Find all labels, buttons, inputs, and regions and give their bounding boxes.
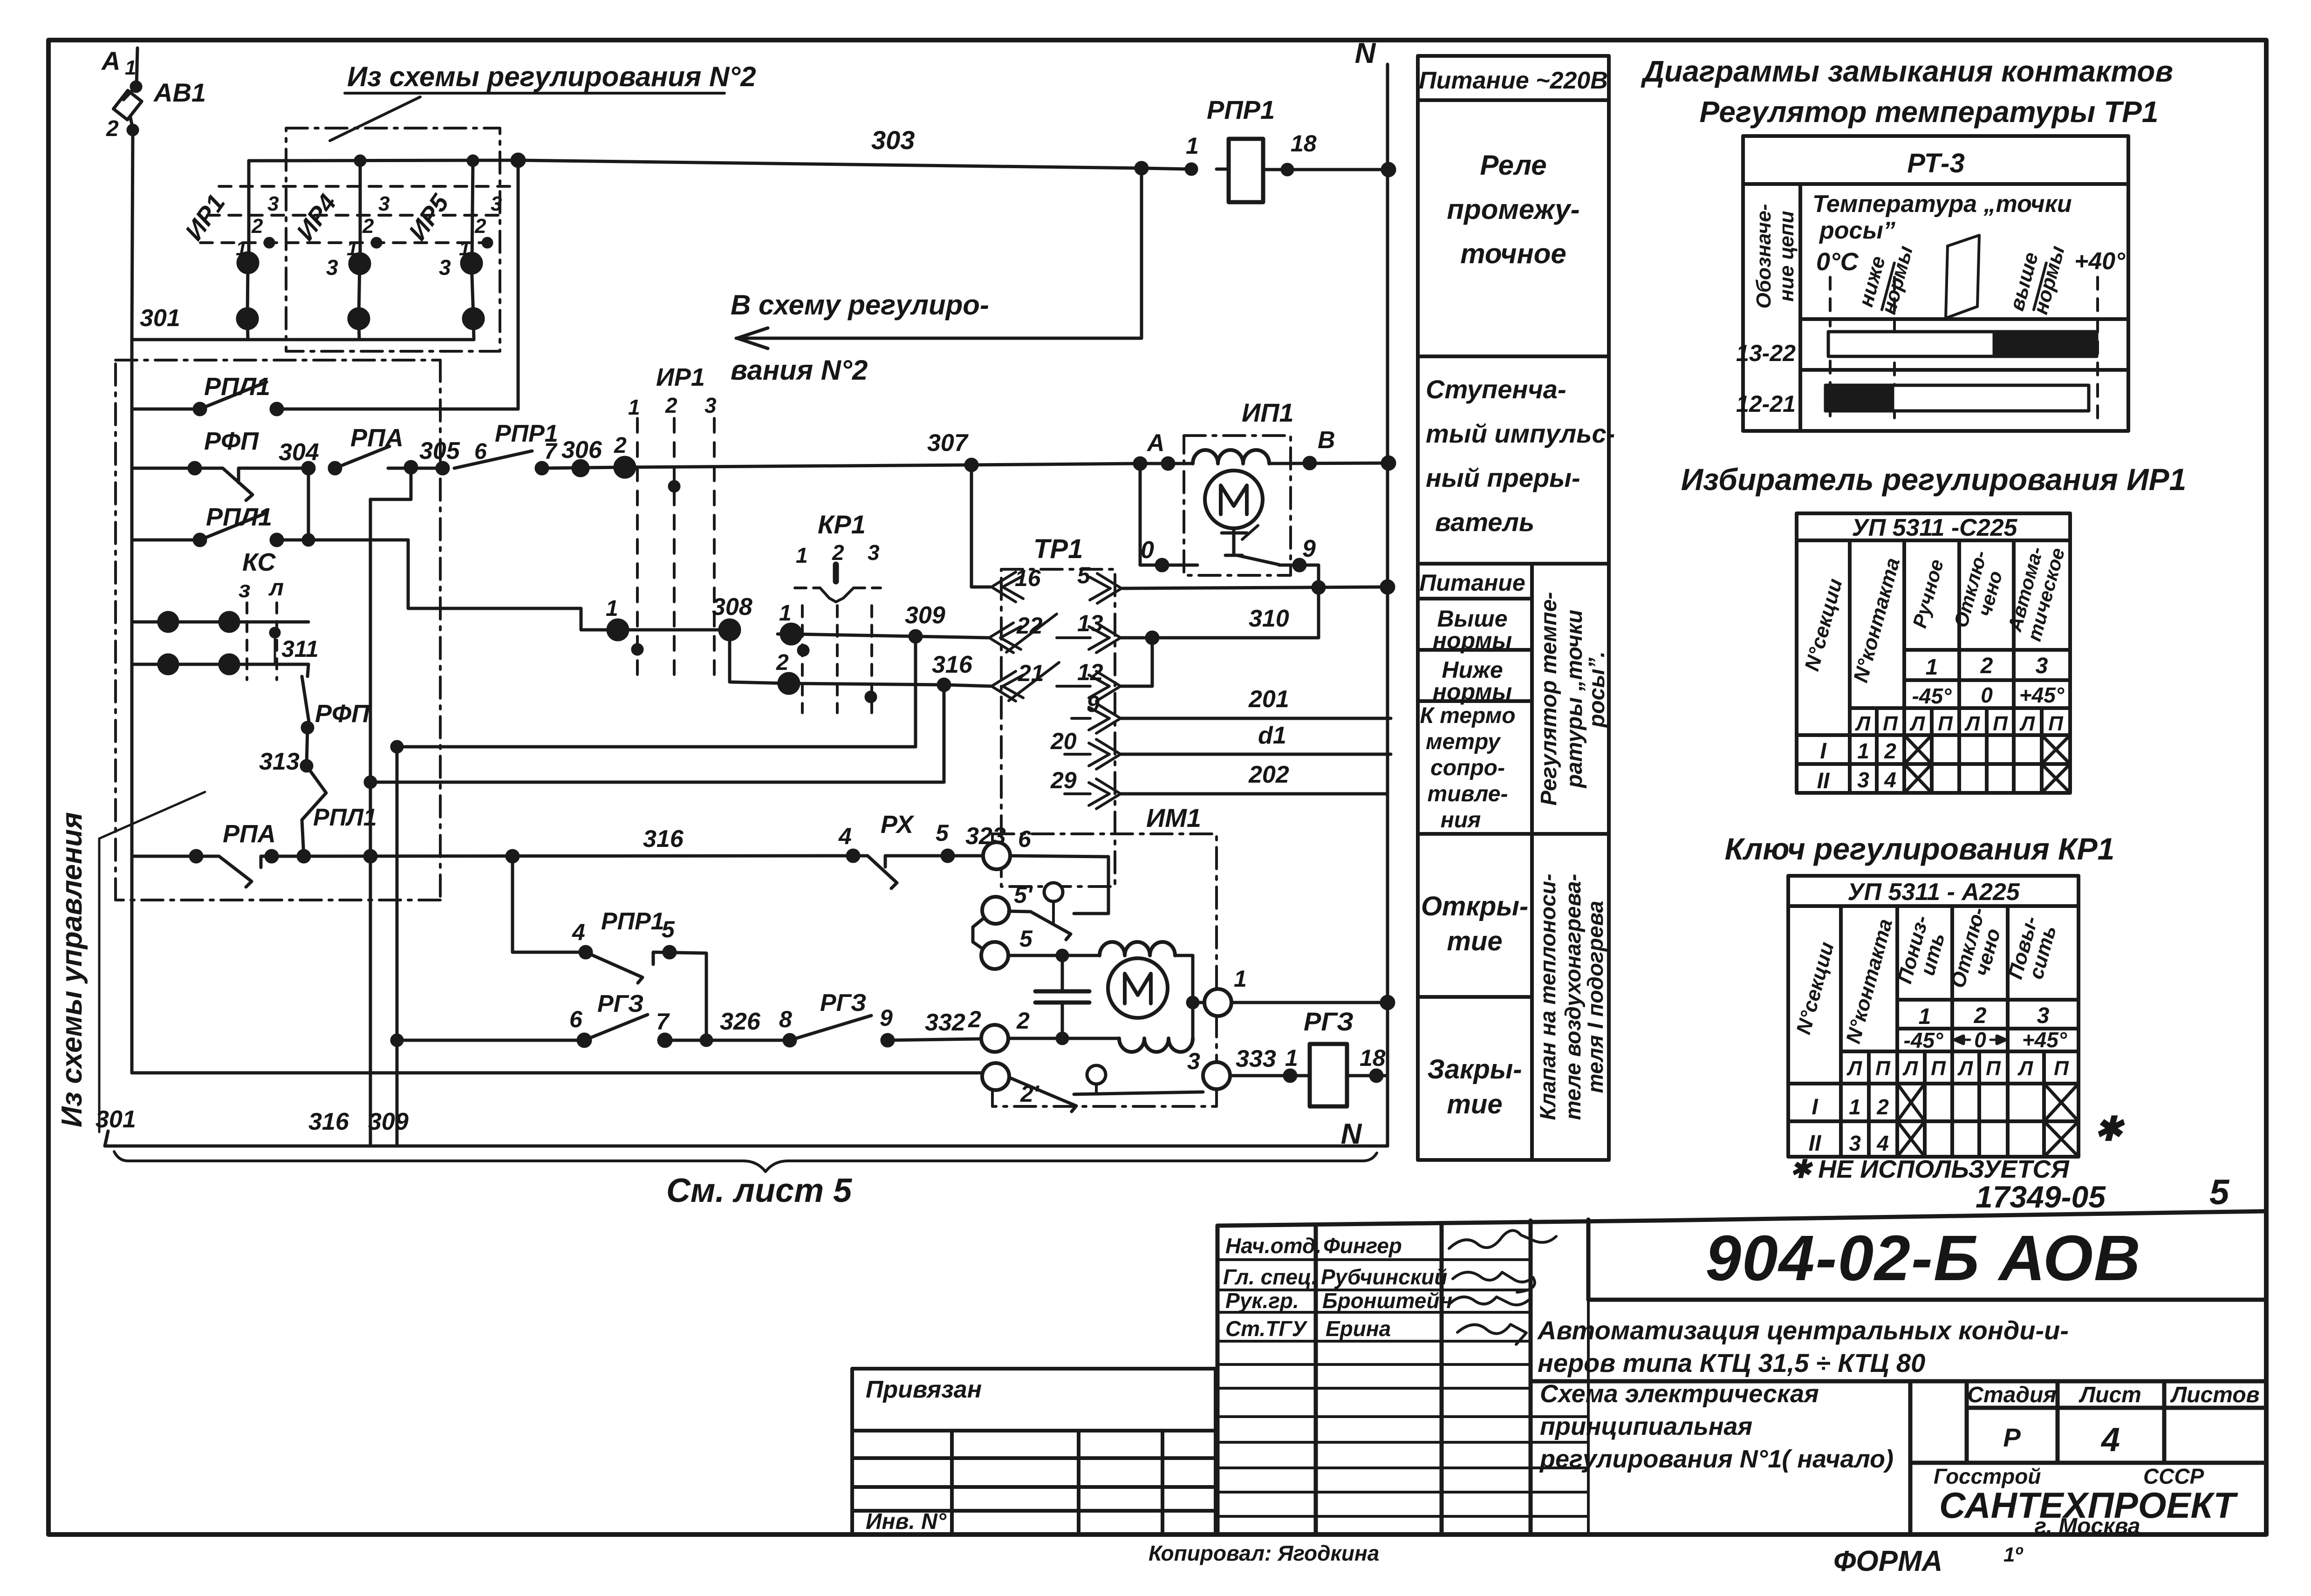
- svg-text:нормы: нормы: [1433, 679, 1512, 705]
- svg-text:Копировал: Ягодкина: Копировал: Ягодкина: [1149, 1541, 1379, 1565]
- svg-text:17349-05: 17349-05: [1976, 1180, 2106, 1214]
- svg-text:П: П: [2048, 712, 2064, 735]
- svg-text:I: I: [1812, 1095, 1819, 1119]
- svg-text:1: 1: [796, 543, 808, 567]
- svg-text:Температура „точки: Температура „точки: [1812, 191, 2072, 218]
- svg-text:точное: точное: [1460, 238, 1566, 269]
- svg-text:4: 4: [1884, 768, 1896, 792]
- dashed boundary box (control scheme region): [116, 360, 440, 900]
- svg-text:Нач.отд.: Нач.отд.: [1225, 1234, 1321, 1258]
- wire terminal6 loop: [1010, 856, 1108, 914]
- svg-text:3: 3: [868, 540, 880, 565]
- svg-text:1: 1: [347, 237, 358, 260]
- title: Ключ регулирования КР1: [1725, 832, 2115, 866]
- svg-text:3: 3: [1187, 1048, 1200, 1074]
- svg-text:Закры-: Закры-: [1427, 1054, 1522, 1084]
- svg-text:1: 1: [125, 56, 136, 79]
- wire riser 316 to bus: [369, 499, 372, 1146]
- svg-text:ИМ1: ИМ1: [1146, 803, 1201, 832]
- pin 13 arrow: [1057, 623, 1121, 653]
- svg-text:5': 5': [1014, 882, 1033, 908]
- svg-text:4: 4: [838, 823, 852, 849]
- contact bar 13-22: [1828, 332, 2097, 356]
- contact ИР1-2 on wire 307: [615, 457, 635, 477]
- svg-text:промежу-: промежу-: [1447, 194, 1579, 225]
- wire 309 horizontal: [397, 745, 916, 749]
- svg-text:0: 0: [1981, 683, 1993, 707]
- svg-text:Р: Р: [2003, 1423, 2021, 1452]
- svg-text:В схему регулиро-: В схему регулиро-: [731, 289, 989, 321]
- svg-text:2: 2: [251, 215, 263, 238]
- svg-text:904-02-Б АОВ: 904-02-Б АОВ: [1705, 1222, 2141, 1294]
- wire 310 pin13: [1121, 636, 1319, 640]
- organization cell: [1934, 1464, 2238, 1539]
- svg-text:202: 202: [1248, 761, 1289, 788]
- svg-text:метру: метру: [1426, 730, 1501, 754]
- svg-text:ТР1: ТР1: [1033, 534, 1083, 564]
- dashed box around ИР4 ИР5 (from scheme 2): [286, 128, 500, 351]
- svg-text:принципиальная: принципиальная: [1540, 1412, 1752, 1440]
- svg-text:✱: ✱: [2094, 1111, 2125, 1148]
- svg-text:3: 3: [326, 255, 338, 280]
- contact РПР1 rung 2: [437, 463, 448, 474]
- svg-text:316: 316: [932, 651, 973, 678]
- svg-text:+45°: +45°: [2019, 683, 2065, 707]
- svg-text:К термо: К термо: [1420, 703, 1515, 728]
- svg-text:Рук.гр.: Рук.гр.: [1225, 1289, 1299, 1313]
- svg-text:РГЗ: РГЗ: [820, 989, 866, 1016]
- svg-text:Фингер: Фингер: [1323, 1234, 1402, 1258]
- svg-text:5: 5: [2209, 1173, 2230, 1212]
- wire 5' bridge: [973, 919, 983, 948]
- svg-text:N: N: [1355, 37, 1376, 69]
- svg-text:II: II: [1817, 769, 1830, 793]
- contact РПР1 lower rung: [580, 947, 591, 958]
- svg-text:Л: Л: [1902, 1057, 1918, 1080]
- setpoint parallelogram: [1946, 235, 1979, 318]
- pin 22 arrow: [989, 614, 1057, 653]
- svg-text:Л: Л: [1964, 712, 1980, 735]
- selector КР1 dashed columns: [796, 510, 880, 567]
- note text: Из схемы регулирования №2: [347, 61, 756, 92]
- svg-text:АВ1: АВ1: [153, 78, 206, 107]
- signature scribbles: [1449, 1230, 1556, 1344]
- pin 5 arrow: [1090, 573, 1121, 603]
- cross marks: [1904, 735, 2070, 793]
- svg-text:304: 304: [279, 439, 319, 466]
- svg-text:9: 9: [1087, 691, 1100, 717]
- svg-text:Диаграммы замыкания контактов: Диаграммы замыкания контактов: [1641, 55, 2173, 88]
- svg-text:303: 303: [871, 125, 915, 155]
- svg-text:Л: Л: [1909, 712, 1925, 735]
- contact РХ on wire 316: [848, 850, 859, 861]
- svg-text:ный преры-: ный преры-: [1426, 463, 1580, 492]
- svg-text:П: П: [1883, 712, 1898, 735]
- wire riser 304 down: [307, 468, 310, 540]
- wire from AB1 down to 301: [132, 130, 133, 340]
- svg-text:1: 1: [1926, 655, 1938, 680]
- svg-text:16: 16: [1015, 565, 1041, 591]
- motor M of ИП1: [1205, 471, 1263, 528]
- svg-text:6: 6: [569, 1006, 583, 1032]
- svg-text:КР1: КР1: [818, 510, 866, 539]
- svg-text:теля I подогрева: теля I подогрева: [1583, 901, 1607, 1093]
- svg-text:Ст.ТГУ: Ст.ТГУ: [1225, 1316, 1308, 1341]
- svg-text:3: 3: [1857, 768, 1869, 792]
- svg-text:313: 313: [259, 748, 300, 775]
- svg-text:2: 2: [1974, 1003, 1987, 1028]
- wire from rung1 to rung2: [370, 467, 411, 499]
- svg-text:309: 309: [368, 1108, 409, 1135]
- svg-text:13-22: 13-22: [1736, 340, 1796, 366]
- rung 4 with connectors: [132, 621, 308, 624]
- svg-text:2: 2: [1016, 1008, 1030, 1034]
- svg-text:2: 2: [776, 650, 789, 675]
- svg-text:регулирования N°1( начало): регулирования N°1( начало): [1539, 1445, 1894, 1473]
- wire 201: [1121, 717, 1391, 720]
- wire rung3 drop: [408, 540, 618, 630]
- svg-text:Л: Л: [1855, 712, 1871, 735]
- svg-text:7: 7: [544, 439, 558, 464]
- svg-text:тие: тие: [1447, 926, 1502, 956]
- svg-text:3: 3: [2037, 1003, 2050, 1028]
- svg-text:2: 2: [1884, 739, 1896, 763]
- svg-text:d1: d1: [1258, 722, 1286, 749]
- svg-text:Л: Л: [2017, 1057, 2033, 1080]
- svg-text:-45°: -45°: [1912, 684, 1952, 708]
- svg-text:РТ-3: РТ-3: [1907, 148, 1964, 178]
- pin 12 arrow: [1057, 671, 1121, 701]
- title block stamp: [1217, 1211, 2266, 1535]
- node 303 branch junction: [1136, 163, 1147, 174]
- svg-text:2: 2: [614, 433, 627, 458]
- svg-text:Клапан на теплоноси-: Клапан на теплоноси-: [1535, 873, 1560, 1120]
- svg-text:1: 1: [236, 237, 247, 260]
- pin 29 arrow: [1065, 779, 1121, 809]
- svg-text:18: 18: [1360, 1045, 1386, 1071]
- coil ИП1: [1193, 450, 1269, 464]
- wire riser 303 to rung: [517, 160, 520, 409]
- svg-text:1: 1: [1849, 1095, 1861, 1119]
- wire terminal2 row: [1008, 1037, 1119, 1040]
- svg-text:См. лист 5: См. лист 5: [666, 1172, 852, 1209]
- svg-text:Лист: Лист: [2079, 1383, 2141, 1407]
- contact КР1-1 wire 309: [778, 633, 791, 636]
- switch contact of ИП1: [1232, 528, 1236, 555]
- svg-text:20: 20: [1050, 728, 1077, 754]
- note: не используется: [1790, 1155, 2070, 1183]
- breaker AB1: [137, 48, 137, 85]
- arrows around 0: [1956, 1039, 1970, 1041]
- svg-text:2: 2: [106, 116, 119, 141]
- svg-text:II: II: [1809, 1131, 1822, 1156]
- project title: [1537, 1316, 2069, 1378]
- svg-text:нормы: нормы: [1433, 627, 1512, 654]
- svg-text:2: 2: [362, 215, 374, 238]
- stage row: [1967, 1383, 2259, 1459]
- svg-text:0: 0: [1141, 537, 1154, 564]
- interrupter ИП1 dashed box: [1184, 436, 1291, 575]
- svg-text:201: 201: [1248, 686, 1289, 713]
- brace см лист 5: [114, 1152, 1377, 1172]
- svg-text:332: 332: [925, 1009, 965, 1036]
- contact РПА rung 6: [132, 855, 196, 858]
- contact КР1-2 wire 316: [779, 674, 799, 693]
- svg-text:РФП: РФП: [204, 427, 259, 455]
- terminal 5': [982, 897, 1009, 924]
- svg-text:310: 310: [1249, 605, 1289, 632]
- contact РГЗ 8-9: [706, 1039, 790, 1042]
- rung 5 wire 311: [132, 663, 308, 666]
- svg-text:4: 4: [572, 919, 585, 945]
- svg-text:Избиратель регулирования ИР1: Избиратель регулирования ИР1: [1681, 462, 2187, 497]
- wire 202: [1121, 792, 1386, 796]
- svg-text:П: П: [1931, 1057, 1946, 1080]
- svg-text:0°С: 0°С: [1816, 248, 1859, 276]
- wire 307: [625, 464, 1168, 467]
- wire 316 horizontal: [370, 781, 944, 784]
- svg-text:1: 1: [1234, 966, 1247, 992]
- svg-text:2: 2: [1876, 1095, 1889, 1119]
- svg-text:7: 7: [656, 1009, 670, 1035]
- svg-text:Ерина: Ерина: [1326, 1316, 1391, 1341]
- svg-text:ИП1: ИП1: [1242, 398, 1294, 427]
- svg-text:Бронштейн: Бронштейн: [1322, 1289, 1452, 1313]
- wire N bus vertical: [1386, 64, 1389, 1146]
- svg-text:вания N°2: вания N°2: [731, 355, 868, 386]
- contact РФП rung 2: [132, 467, 195, 470]
- svg-text:Из схемы управления: Из схемы управления: [56, 812, 88, 1127]
- svg-text:тие: тие: [1447, 1089, 1502, 1119]
- svg-text:2: 2: [832, 540, 844, 565]
- svg-text:тивле-: тивле-: [1428, 782, 1508, 806]
- svg-text:3: 3: [1849, 1131, 1861, 1155]
- svg-text:РХ: РХ: [881, 811, 915, 839]
- terminal 1: [1204, 989, 1231, 1016]
- svg-text:Схема электрическая: Схема электрическая: [1540, 1380, 1819, 1408]
- svg-text:Ключ регулирования КР1: Ключ регулирования КР1: [1725, 832, 2115, 866]
- cross marks КР1: [1897, 1084, 2079, 1157]
- svg-text:П: П: [1938, 712, 1953, 735]
- relay coil РГЗ: [1310, 1044, 1347, 1106]
- svg-text:Регулятор темпе-: Регулятор темпе-: [1537, 592, 1561, 806]
- svg-text:росы”: росы”: [1819, 217, 1895, 244]
- pin 16 arrow: [991, 572, 1023, 602]
- svg-text:9: 9: [1302, 535, 1316, 562]
- left rail: [130, 340, 134, 856]
- svg-text:РПА: РПА: [223, 820, 276, 848]
- footer notes: [1149, 1541, 2023, 1577]
- svg-text:305: 305: [419, 437, 460, 464]
- wire 301 top-left: [132, 338, 474, 341]
- wire 308 row: [608, 620, 628, 640]
- svg-text:сопро-: сопро-: [1430, 756, 1505, 780]
- svg-text:9: 9: [880, 1005, 893, 1031]
- svg-text:РГЗ: РГЗ: [1304, 1007, 1354, 1036]
- svg-text:неров типа КТЦ 31,5 ÷ КТЦ: неров типа КТЦ 31,5 ÷ КТЦ 80: [1538, 1348, 1925, 1378]
- terminal 2': [982, 1063, 1009, 1090]
- svg-text:Гл. спец.: Гл. спец.: [1223, 1265, 1317, 1289]
- scheme name cell: [1539, 1380, 1894, 1473]
- svg-text:5: 5: [662, 916, 675, 942]
- pin 9 arrow: [1072, 703, 1121, 733]
- pin 20 arrow: [1065, 739, 1121, 769]
- svg-text:+45°: +45°: [2022, 1028, 2067, 1052]
- svg-text:Инв. N°: Инв. N°: [866, 1509, 947, 1534]
- terminal 6: [983, 842, 1010, 869]
- svg-text:3: 3: [2036, 654, 2048, 678]
- svg-text:22: 22: [1016, 613, 1043, 639]
- svg-text:3: 3: [704, 393, 717, 417]
- svg-text:307: 307: [927, 430, 969, 457]
- svg-text:1: 1: [1285, 1045, 1298, 1071]
- svg-text:3: 3: [378, 192, 390, 215]
- svg-text:333: 333: [1236, 1045, 1276, 1072]
- svg-text:КС: КС: [242, 548, 276, 576]
- svg-text:росы”.: росы”.: [1585, 651, 1609, 729]
- wire terminal5 to motor coil: [1008, 954, 1100, 957]
- svg-text:Из схемы регулирования N°2: Из схемы регулирования N°2: [347, 61, 756, 92]
- svg-text:0: 0: [1974, 1028, 1986, 1052]
- svg-text:Стадия: Стадия: [1967, 1383, 2056, 1407]
- svg-text:2: 2: [474, 215, 486, 238]
- motor M of ИМ1: [1108, 958, 1168, 1018]
- breaker AB1 pole A label: [101, 46, 136, 79]
- selector ИР1 dashed columns (middle): [637, 418, 714, 680]
- selector tie dashes: [200, 186, 515, 243]
- svg-text:301: 301: [96, 1106, 136, 1133]
- coil ИМ1 lower: [1119, 1038, 1193, 1052]
- coil ИМ1 upper: [1100, 942, 1175, 955]
- svg-text:РПР1: РПР1: [1207, 95, 1275, 124]
- svg-text:ния: ния: [1441, 808, 1481, 832]
- svg-text:2: 2: [1980, 654, 1993, 678]
- svg-text:2: 2: [968, 1006, 981, 1032]
- leader line to note: [330, 97, 420, 141]
- svg-text:В: В: [1318, 427, 1335, 454]
- svg-text:6: 6: [1018, 826, 1032, 852]
- svg-text:309: 309: [905, 602, 945, 629]
- rotated note: Из схемы управления: [56, 812, 88, 1127]
- svg-text:+40°: +40°: [2074, 248, 2126, 275]
- terminal 3: [1203, 1062, 1230, 1089]
- svg-text:18: 18: [1291, 130, 1317, 157]
- document number 17349-05: [1976, 1173, 2230, 1214]
- capacitor: [1061, 955, 1064, 991]
- svg-text:Ступенча-: Ступенча-: [1426, 375, 1566, 404]
- wire to terminal 1 and N: [1193, 1001, 1204, 1004]
- svg-text:РПЛ1: РПЛ1: [204, 373, 270, 401]
- svg-text:ФОРМА: ФОРМА: [1833, 1545, 1942, 1577]
- svg-text:Обозначе-: Обозначе-: [1752, 204, 1775, 309]
- document code 904-02-6 АОВ: [1705, 1222, 2141, 1294]
- svg-text:П: П: [1875, 1057, 1891, 1080]
- wire riser 309 to bus: [396, 747, 399, 1146]
- svg-text:П: П: [1993, 712, 2008, 735]
- svg-text:РГЗ: РГЗ: [597, 990, 643, 1017]
- svg-text:А: А: [101, 46, 120, 75]
- svg-text:РПЛ1: РПЛ1: [313, 804, 377, 831]
- contact РФП chain: [308, 664, 308, 676]
- stamp labels left: [852, 1369, 1216, 1431]
- terminal 2: [981, 1025, 1008, 1052]
- svg-text:Реле: Реле: [1480, 150, 1546, 181]
- svg-text:Откры-: Откры-: [1421, 891, 1528, 921]
- svg-text:Листов: Листов: [2170, 1383, 2259, 1407]
- contact bar 12-21: [1826, 385, 2089, 411]
- svg-text:Л: Л: [1957, 1057, 1973, 1080]
- svg-text:1: 1: [628, 395, 640, 419]
- svg-text:5: 5: [936, 820, 949, 846]
- svg-text:з: з: [239, 576, 251, 602]
- svg-text:РПЛ1: РПЛ1: [206, 503, 272, 531]
- contact KC with lamp columns: [239, 548, 284, 602]
- svg-text:12: 12: [1077, 659, 1103, 685]
- svg-text:1: 1: [779, 601, 792, 626]
- wire d1: [1121, 753, 1391, 756]
- wire 333: [1230, 1074, 1310, 1078]
- svg-text:ние цепи: ние цепи: [1775, 211, 1798, 301]
- svg-text:316: 316: [643, 825, 684, 853]
- actuator ИМ1 dashed box: [992, 834, 1217, 1106]
- svg-text:1: 1: [606, 596, 618, 621]
- node 304 junction: [303, 463, 314, 474]
- svg-text:1: 1: [1919, 1004, 1931, 1029]
- svg-text:УП 5311 - А225: УП 5311 - А225: [1847, 879, 2020, 906]
- svg-text:РПА: РПА: [350, 424, 403, 452]
- svg-text:1: 1: [1857, 739, 1869, 763]
- legend table middle column: [1418, 56, 1609, 1160]
- wire 307 branch to ТР1 pin16: [971, 465, 990, 587]
- svg-text:РПР1: РПР1: [601, 908, 664, 935]
- scale dashed lines: [1830, 277, 2098, 422]
- contact РПА rung 2: [329, 463, 341, 474]
- contact РПЛ1 chain: [302, 766, 326, 856]
- svg-text:4: 4: [1876, 1131, 1889, 1155]
- svg-text:✱ НЕ ИСПОЛЬЗУЕТСЯ: ✱ НЕ ИСПОЛЬЗУЕТСЯ: [1790, 1155, 2070, 1183]
- svg-text:Питание ~220В: Питание ~220В: [1419, 67, 1608, 94]
- svg-text:Питание: Питание: [1419, 570, 1525, 596]
- regulator ТР1 dashed box: [1001, 569, 1115, 887]
- svg-text:Рубчинский: Рубчинский: [1321, 1265, 1447, 1289]
- title: Избиратель регулирования ИР1: [1681, 462, 2187, 497]
- svg-text:I: I: [1820, 739, 1827, 764]
- node N top label: [1355, 37, 1376, 69]
- svg-text:г. Москва: г. Москва: [2034, 1514, 2140, 1539]
- svg-text:теле воздухонагрева-: теле воздухонагрева-: [1560, 874, 1585, 1120]
- svg-text:12-21: 12-21: [1736, 391, 1796, 417]
- svg-text:8: 8: [779, 1006, 792, 1032]
- contact РПЛ1 rung 1: [132, 408, 200, 411]
- svg-text:13: 13: [1077, 610, 1103, 636]
- svg-text:3: 3: [439, 255, 451, 280]
- svg-text:Л: Л: [2019, 712, 2035, 735]
- svg-text:УП 5311 -С225: УП 5311 -С225: [1852, 514, 2018, 541]
- limit switch upper with lamp: [1044, 883, 1063, 901]
- wire pin5 to N: [1121, 587, 1388, 588]
- svg-text:ватель: ватель: [1435, 507, 1534, 537]
- svg-text:Привязан: Привязан: [866, 1376, 982, 1403]
- terminal 5: [981, 942, 1008, 969]
- svg-text:311: 311: [281, 636, 319, 662]
- svg-text:РФП: РФП: [315, 700, 370, 728]
- svg-text:3: 3: [267, 192, 279, 215]
- svg-text:308: 308: [712, 593, 752, 621]
- pin 21 arrow: [991, 662, 1059, 701]
- diagram table РТ-3: [1743, 136, 2128, 431]
- svg-text:л: л: [268, 574, 284, 600]
- wire riser to РПР1 rung: [513, 856, 586, 952]
